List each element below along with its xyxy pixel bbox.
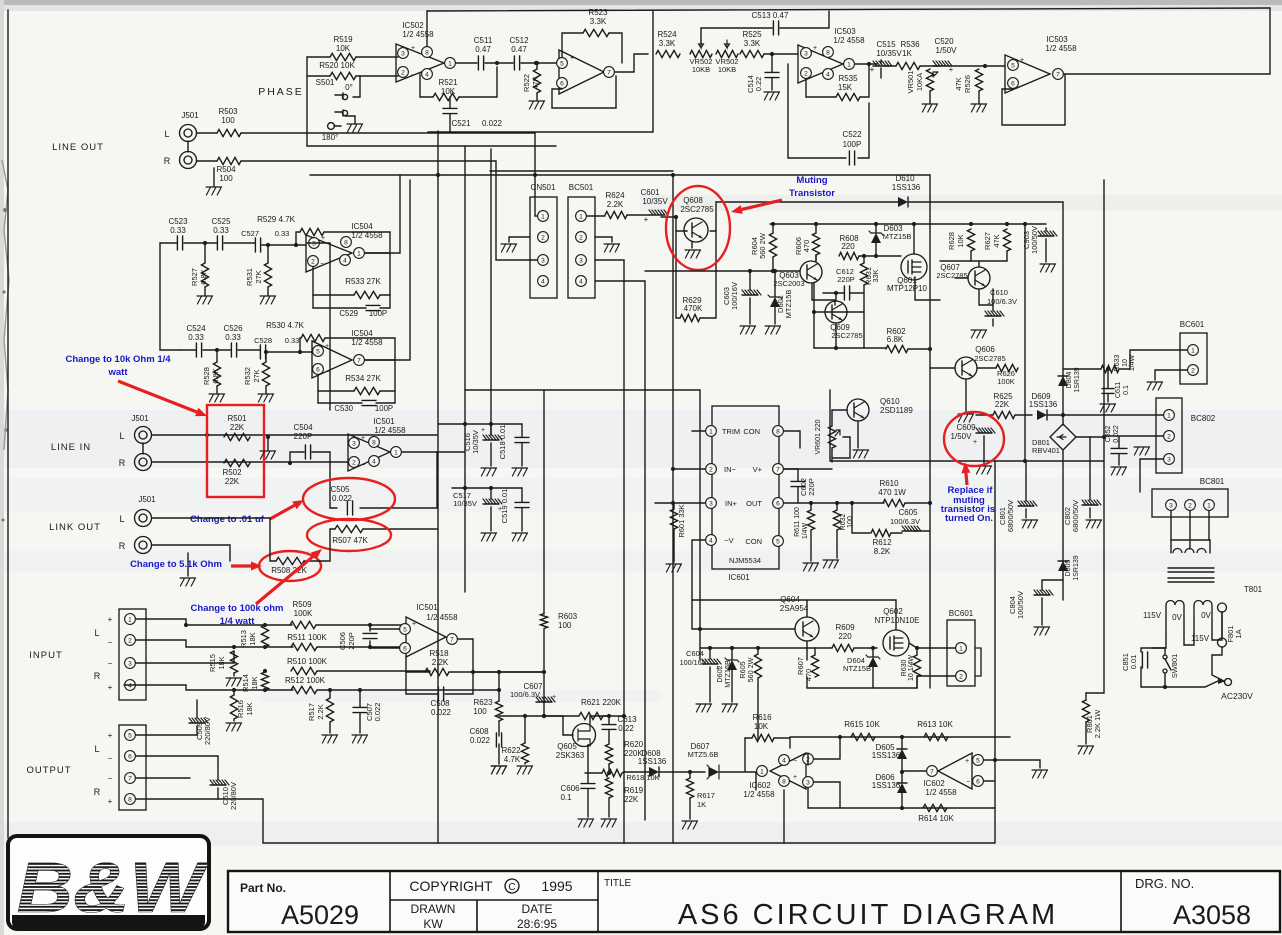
svg-text:R613 10K: R613 10K (917, 720, 953, 729)
svg-text:0.33: 0.33 (275, 229, 290, 238)
ground R611 (803, 563, 818, 571)
svg-text:−: − (411, 72, 415, 79)
wire R612 loop (852, 503, 870, 533)
transistor Q604 (795, 617, 819, 641)
wire C602 stems (784, 469, 798, 481)
red ellipse around R508 (259, 551, 321, 581)
electrolytic C903 (1038, 231, 1057, 236)
wire C507 stems (359, 690, 361, 707)
wire R517 stems (329, 690, 331, 698)
svg-text:6800/50V: 6800/50V (1006, 500, 1015, 532)
transformer core lines (1168, 568, 1214, 582)
svg-text:3: 3 (312, 240, 316, 247)
wire C520 to IC503b (949, 65, 1005, 67)
wire IC502b fb loop (552, 76, 616, 108)
resistor R611 (807, 510, 814, 530)
pin 7 OUTPUT (125, 773, 136, 784)
wire R602 row (814, 347, 886, 349)
wire R627 bottom stem (1006, 251, 1008, 261)
svg-text:C508: C508 (430, 699, 450, 708)
ground BC501 pin2 (595, 237, 612, 242)
capacitor C605 electrolytic (902, 526, 921, 531)
pin 1 BC801 (1204, 500, 1215, 511)
svg-text:18K: 18K (248, 632, 257, 645)
svg-text:47K: 47K (954, 77, 963, 90)
diode D609 (1037, 410, 1047, 420)
wire jack link (187, 141, 189, 152)
pin 5 IC504b (313, 346, 324, 357)
svg-text:D805: D805 (1065, 560, 1072, 577)
resistor R620 (605, 744, 612, 764)
svg-text:2: 2 (959, 673, 963, 680)
wire output row6 (136, 756, 218, 762)
svg-text:C526: C526 (223, 324, 243, 333)
fuse F801 (1218, 603, 1227, 647)
svg-text:Transistor: Transistor (789, 188, 835, 199)
svg-text:47K: 47K (531, 76, 540, 89)
ground R532 (265, 386, 267, 393)
rail y202 to D610 (716, 201, 898, 203)
svg-text:C605: C605 (898, 508, 918, 517)
zener D603 (869, 231, 883, 243)
resistor R633 (1101, 365, 1119, 372)
resistor R507 below (335, 525, 363, 532)
svg-text:C504: C504 (293, 423, 313, 432)
svg-text:100P: 100P (843, 140, 862, 149)
wire R621 row (544, 715, 579, 717)
svg-text:C525: C525 (211, 217, 231, 226)
pin 1 IC503a output (844, 59, 855, 70)
pin 2 IC602a (803, 754, 814, 765)
electrolytic C601 (649, 210, 668, 215)
svg-text:AC230V: AC230V (1221, 691, 1253, 701)
resistor R614 (923, 804, 947, 811)
wire C610 stem (992, 289, 994, 311)
wire Q609 stems (835, 293, 837, 301)
svg-text:C511: C511 (474, 36, 493, 45)
resistor R603 (540, 614, 547, 629)
svg-text:6: 6 (316, 366, 320, 373)
title block drawn/date divider (476, 900, 478, 932)
wire VR601 wiper loop (832, 437, 850, 458)
svg-text:IC503: IC503 (1046, 35, 1068, 44)
wire R511 out (317, 646, 405, 648)
capacitor C512 (514, 56, 519, 70)
svg-text:DRG. NO.: DRG. NO. (1135, 876, 1194, 891)
svg-text:6.8K: 6.8K (887, 335, 904, 344)
svg-text:R516: R516 (236, 700, 245, 718)
svg-text:IN−: IN− (724, 465, 737, 474)
wire BC601 pin2 ground (1155, 370, 1187, 380)
wire rail y424 (438, 423, 522, 425)
resistor R621 (579, 712, 603, 719)
resistor R608 (839, 252, 859, 259)
resistor R602 (886, 345, 908, 352)
wire bus x830 (829, 390, 831, 461)
svg-text:7: 7 (450, 636, 454, 643)
wire input row2 (136, 640, 293, 647)
pin 4 CN501 (538, 276, 549, 287)
resistor R606 (812, 233, 819, 255)
red arrow to R501 box (118, 381, 207, 416)
wire bus x1025 (1024, 224, 1026, 461)
ground R527 (204, 287, 206, 295)
diode D606 (897, 783, 907, 793)
connector OUTPUT box (119, 725, 146, 810)
svg-text:R527: R527 (190, 268, 199, 286)
svg-text:IC501: IC501 (373, 417, 395, 426)
svg-text:2SD1189: 2SD1189 (880, 406, 913, 415)
svg-text:+: + (973, 439, 977, 446)
resistor R504 (217, 157, 241, 164)
wire gate row (499, 715, 563, 717)
svg-text:R529 4.7K: R529 4.7K (257, 215, 295, 224)
svg-text:TITLE: TITLE (604, 878, 632, 889)
red arrow to R508 (231, 562, 262, 571)
wire bus y146 (307, 145, 556, 147)
svg-text:8.2K: 8.2K (874, 547, 891, 556)
op-amp IC503 first half (798, 45, 843, 83)
wire C516 stem (490, 424, 492, 435)
capacitor C606 (581, 784, 595, 789)
pin 2 INPUT (125, 635, 136, 646)
wire bus y175 (310, 174, 930, 176)
svg-text:6: 6 (976, 778, 980, 785)
ground C852 (1111, 467, 1126, 475)
wire into IC501a (310, 461, 348, 463)
ground C516 (481, 468, 496, 476)
electrolytic C801 (1018, 501, 1037, 506)
svg-text:8: 8 (128, 796, 132, 803)
svg-text:220P: 220P (294, 432, 313, 441)
connector BC801 box (1152, 489, 1228, 517)
pin 4 IC601 (706, 535, 717, 546)
pin 6 IC602b (973, 776, 984, 787)
svg-text:Q602: Q602 (883, 607, 903, 616)
pin 4 IC503a (823, 69, 834, 80)
wire Q601 source stem (915, 277, 940, 300)
wire output row5 (136, 734, 197, 736)
svg-text:R520 10K: R520 10K (319, 61, 355, 70)
svg-text:6.8K: 6.8K (199, 269, 208, 284)
op-amp IC502 first half (396, 44, 444, 82)
svg-text:+: + (1020, 57, 1024, 64)
svg-text:1K: 1K (902, 49, 912, 58)
svg-text:L: L (94, 628, 99, 638)
wire R606 stem (815, 224, 817, 233)
svg-text:−: − (108, 774, 113, 783)
ground CN501 pin2 (509, 237, 530, 242)
svg-text:R519: R519 (333, 35, 353, 44)
svg-text:C608: C608 (469, 727, 489, 736)
svg-text:470: 470 (802, 240, 811, 253)
wire fuse down (1212, 647, 1222, 680)
ground link out (187, 553, 189, 576)
wire R529 loop (296, 232, 300, 245)
svg-text:R628: R628 (947, 232, 956, 250)
ground C519 (512, 533, 527, 541)
wire R607 (814, 648, 816, 655)
svg-text:5: 5 (1011, 62, 1015, 69)
svg-text:0.47: 0.47 (475, 45, 491, 54)
pin 4 IC501a (369, 456, 380, 467)
wire bus y461 (830, 460, 1104, 462)
ground R601 (666, 564, 681, 572)
wire pin8 to top rail (426, 11, 428, 46)
potentiometer VR502 second (716, 50, 738, 57)
svg-text:100: 100 (473, 707, 487, 716)
wire R626 row (977, 367, 996, 369)
wire C518 stem (521, 424, 523, 437)
svg-text:J501: J501 (181, 111, 199, 120)
wire D605 (901, 737, 903, 749)
svg-text:OUT: OUT (746, 499, 762, 508)
wire R618 row (585, 772, 602, 774)
svg-text:4: 4 (541, 278, 545, 285)
resistor R610 (883, 499, 905, 506)
capacitor C523 (177, 236, 182, 250)
svg-text:LINK OUT: LINK OUT (49, 522, 101, 533)
svg-text:R620: R620 (624, 740, 644, 749)
svg-text:S501: S501 (316, 78, 335, 87)
svg-text:0V: 0V (1172, 613, 1182, 622)
ground C604 (696, 704, 711, 712)
red arrow to C505 (270, 500, 304, 519)
wire R630 (916, 648, 918, 655)
svg-text:7: 7 (1056, 71, 1060, 78)
ground below C514 (764, 92, 779, 100)
wire pin7 row (784, 468, 832, 470)
svg-text:C505: C505 (330, 485, 350, 494)
svg-text:IC601: IC601 (728, 573, 750, 582)
wire Q607 emitter stem (978, 289, 980, 305)
wire R508 row (270, 518, 276, 561)
resistor R626 (996, 364, 1018, 371)
svg-text:R623: R623 (473, 698, 493, 707)
wire output row7 (136, 777, 190, 779)
electrolytic C609 (976, 428, 995, 433)
svg-text:R621 220K: R621 220K (581, 698, 622, 707)
svg-text:100: 100 (219, 174, 233, 183)
svg-text:0.22: 0.22 (754, 77, 763, 92)
svg-text:10K: 10K (336, 44, 351, 53)
pin 2 IC601 (706, 464, 717, 475)
capacitor C518 (515, 437, 529, 442)
resistor R516 (230, 695, 237, 719)
wire R528 stem (216, 350, 218, 362)
svg-text:−: − (1020, 83, 1024, 90)
wire C802 stem (1089, 437, 1091, 500)
wire line in R row (152, 461, 310, 463)
wire R525 to IC503a (764, 53, 798, 55)
svg-text:Change to .01 uf: Change to .01 uf (190, 514, 265, 525)
svg-text:C512: C512 (509, 36, 529, 45)
svg-text:R: R (94, 671, 101, 681)
svg-text:2SC2785: 2SC2785 (974, 354, 1005, 363)
bridge rectifier D801 (1050, 424, 1076, 450)
wire R632 stems (836, 503, 838, 510)
wire R633 row (1063, 368, 1101, 370)
resistor R508 (276, 557, 304, 564)
wire jack link line in (142, 443, 144, 454)
svg-text:R502: R502 (222, 468, 242, 477)
svg-text:2: 2 (352, 459, 356, 466)
resistor R523 (583, 29, 609, 36)
pin 2 CN501 (538, 232, 549, 243)
wire pin2 row (673, 468, 705, 470)
wire C903 stems (1045, 228, 1047, 231)
svg-text:+: + (793, 774, 797, 781)
title block outer band (228, 871, 1280, 932)
wire BC802 pin3 (1140, 459, 1163, 492)
svg-text:D610: D610 (895, 174, 915, 183)
ground D601 (765, 326, 780, 334)
svg-text:7: 7 (128, 775, 132, 782)
pin 8 IC602a (779, 776, 790, 787)
pin 1 BC601 lower (956, 643, 967, 654)
wire Q604 collector (806, 641, 808, 660)
svg-text:5: 5 (316, 348, 320, 355)
wire R509 out (316, 624, 405, 626)
svg-text:0.1: 0.1 (1123, 385, 1130, 395)
ground line in (267, 437, 269, 450)
wire R629 row (676, 317, 680, 319)
svg-text:1SS136: 1SS136 (1029, 400, 1058, 409)
wire row y672 right (473, 671, 544, 673)
potentiometer VR502 first (690, 50, 712, 57)
resistor R520 (330, 72, 356, 79)
svg-text:R514: R514 (241, 674, 250, 692)
capacitor C525 (217, 236, 222, 250)
pin 5 IC501b (400, 624, 411, 635)
pin 5 IC602b (973, 755, 984, 766)
ground IC602 right (995, 736, 1010, 738)
wire left sheet border (7, 10, 9, 838)
wire C511 to C512 (485, 62, 513, 64)
jack J501 link out L (135, 510, 152, 527)
svg-text:R536: R536 (900, 40, 920, 49)
svg-text:1: 1 (1167, 412, 1171, 419)
svg-text:BC601: BC601 (1180, 320, 1205, 329)
wire pin3 row (655, 502, 705, 504)
svg-text:+: + (361, 435, 365, 442)
wire R507 loop (330, 528, 335, 530)
svg-text:C601: C601 (640, 188, 660, 197)
wire long bus x624 (623, 403, 625, 843)
wire Q603 base row (645, 270, 800, 272)
resistor R511 (291, 643, 317, 650)
svg-text:100: 100 (221, 116, 235, 125)
wire R611 stems (810, 503, 812, 510)
svg-text:+: + (870, 65, 875, 74)
svg-text:1SS136: 1SS136 (638, 757, 667, 766)
op-amp IC502 second half (559, 50, 604, 94)
svg-text:MTP12P10: MTP12P10 (887, 284, 928, 293)
wire BC802 pin2 (1104, 435, 1163, 437)
pin 4 IC602a (779, 755, 790, 766)
wire R530 loop (300, 338, 301, 352)
wire input row1 (136, 619, 292, 625)
zener D601 (768, 295, 782, 307)
ground C518 (512, 468, 527, 476)
IC601 NJM5534 box (712, 406, 779, 569)
ground D602 (722, 704, 737, 712)
wire R620 (608, 740, 610, 744)
wire x1104 bottom corner (1086, 692, 1104, 694)
svg-text:4: 4 (782, 757, 786, 764)
wire IC504a out (365, 175, 400, 253)
svg-text:+: + (321, 235, 325, 242)
wire C523-C525 row (160, 242, 177, 244)
wire C514 stem (771, 54, 773, 72)
svg-text:VR501: VR501 (906, 71, 915, 94)
capacitor C612 (844, 286, 849, 300)
switch S501 180 contact (328, 123, 335, 130)
svg-text:R619: R619 (624, 786, 644, 795)
wire R609 row (815, 647, 832, 649)
jack J501 link out R (135, 537, 152, 554)
resistor R517 (326, 698, 333, 722)
pin 7 IC503b output (1053, 69, 1064, 80)
svg-text:2.2K: 2.2K (316, 704, 325, 719)
wire Q608 base stub (686, 230, 688, 232)
svg-text:5: 5 (403, 626, 407, 633)
capacitor C514 (765, 72, 779, 77)
svg-text:SW801: SW801 (1170, 654, 1179, 679)
wire R622 (524, 716, 526, 743)
svg-text:AS6 CIRCUIT DIAGRAM: AS6 CIRCUIT DIAGRAM (678, 899, 1058, 931)
transformer primary winding 1 (1166, 601, 1184, 621)
svg-text:6: 6 (1011, 80, 1015, 87)
svg-text:7: 7 (776, 466, 780, 473)
svg-text:R624: R624 (605, 191, 625, 200)
svg-text:2: 2 (1188, 502, 1192, 509)
red ellipse muting transistor (666, 186, 730, 270)
svg-text:R510 100K: R510 100K (287, 657, 328, 666)
svg-text:10/35V: 10/35V (642, 197, 668, 206)
resistor R625 (993, 411, 1015, 418)
svg-text:8: 8 (372, 439, 376, 446)
svg-text:C609: C609 (956, 423, 976, 432)
wire pin8 loop (784, 431, 800, 448)
svg-text:1/4W: 1/4W (802, 522, 809, 539)
wire pin4 row to Q604 (691, 600, 693, 629)
frame wire around IC502 stage (428, 131, 653, 133)
svg-text:3.3K: 3.3K (659, 39, 676, 48)
ground C507 (352, 735, 367, 743)
electrolytic C603 (742, 290, 761, 295)
ground near BC802 (1134, 447, 1149, 455)
resistor R527 (201, 263, 208, 287)
svg-text:−: − (361, 462, 365, 469)
svg-text:2SK363: 2SK363 (556, 751, 585, 760)
pin 1 INPUT (125, 614, 136, 625)
wire R518 out row (449, 671, 544, 673)
red arrow replace (961, 462, 970, 485)
capacitor C602 (791, 481, 805, 486)
wire long bus x491 (490, 149, 492, 435)
svg-text:0.33: 0.33 (188, 333, 204, 342)
svg-text:100/6.3V: 100/6.3V (510, 690, 540, 699)
ground R623 (491, 766, 506, 774)
svg-text:2: 2 (128, 637, 132, 644)
svg-text:10K: 10K (956, 234, 965, 247)
svg-text:R511 100K: R511 100K (287, 633, 327, 642)
wire R522 top (536, 63, 538, 69)
wire D609 to diamond (1047, 414, 1063, 416)
svg-text:27K: 27K (254, 270, 263, 283)
svg-text:BC501: BC501 (569, 183, 594, 192)
